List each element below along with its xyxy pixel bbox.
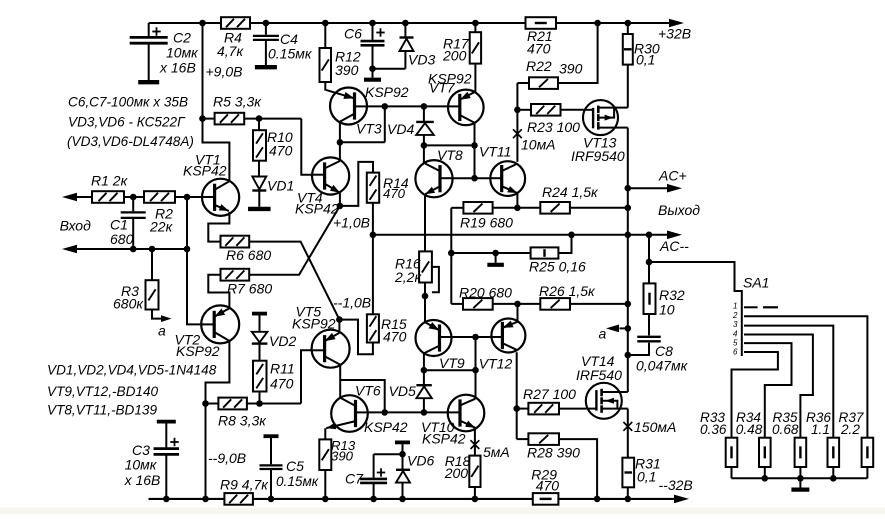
svg-text:200: 200 xyxy=(442,48,467,64)
svg-text:C6,C7-100мк x 35В: C6,C7-100мк x 35В xyxy=(68,95,188,110)
svg-text:2,2к: 2,2к xyxy=(394,269,422,285)
svg-text:R1 2к: R1 2к xyxy=(91,173,129,189)
svg-text:6: 6 xyxy=(733,348,738,357)
svg-text:VD3,VD6 - КС522Г: VD3,VD6 - КС522Г xyxy=(68,115,186,130)
svg-text:680к: 680к xyxy=(113,296,144,312)
svg-text:a: a xyxy=(599,326,607,342)
svg-text:10мА: 10мА xyxy=(521,137,556,153)
svg-text:KSP92: KSP92 xyxy=(176,343,220,359)
svg-text:C2: C2 xyxy=(173,30,191,46)
svg-text:C7: C7 xyxy=(345,471,364,487)
svg-text:0.36: 0.36 xyxy=(700,422,727,437)
svg-text:3: 3 xyxy=(733,320,738,329)
svg-text:--1,0В: --1,0В xyxy=(333,295,371,311)
svg-text:0.68: 0.68 xyxy=(772,422,799,437)
svg-text:--32В: --32В xyxy=(659,477,693,493)
svg-text:+9,0В: +9,0В xyxy=(206,64,243,80)
svg-text:0.15мк: 0.15мк xyxy=(276,474,319,489)
svg-text:R27 100: R27 100 xyxy=(523,386,576,402)
svg-text:KSP92: KSP92 xyxy=(292,316,336,332)
svg-text:680: 680 xyxy=(110,231,134,247)
svg-text:4: 4 xyxy=(733,330,738,339)
svg-text:IRF540: IRF540 xyxy=(576,367,622,383)
svg-text:AC--: AC-- xyxy=(659,238,689,254)
svg-text:0,1: 0,1 xyxy=(636,52,655,68)
svg-text:200: 200 xyxy=(444,465,469,481)
svg-text:R7 680: R7 680 xyxy=(227,281,272,297)
svg-text:470: 470 xyxy=(383,329,407,345)
svg-text:a: a xyxy=(158,323,166,339)
svg-text:R23 100: R23 100 xyxy=(527,119,580,135)
svg-text:R19 680: R19 680 xyxy=(460,215,513,231)
svg-text:0.15мк: 0.15мк xyxy=(268,46,313,62)
svg-text:Выход: Выход xyxy=(658,202,700,218)
svg-text:5мА: 5мА xyxy=(483,444,510,460)
svg-text:470: 470 xyxy=(270,376,294,392)
svg-text:VT9,VT12,-BD140: VT9,VT12,-BD140 xyxy=(47,384,159,399)
svg-text:1: 1 xyxy=(733,302,737,311)
svg-text:KSP42: KSP42 xyxy=(364,419,408,435)
svg-text:+1,0В: +1,0В xyxy=(333,215,370,231)
svg-text:VT3: VT3 xyxy=(356,121,382,137)
svg-text:VT9: VT9 xyxy=(439,355,465,371)
svg-text:470: 470 xyxy=(269,143,293,159)
svg-text:R26 1,5к: R26 1,5к xyxy=(539,283,596,299)
svg-text:VT8: VT8 xyxy=(437,147,463,163)
svg-text:KSP92: KSP92 xyxy=(365,84,409,100)
svg-text:5: 5 xyxy=(733,339,738,348)
svg-text:390: 390 xyxy=(335,62,359,78)
svg-text:10: 10 xyxy=(659,302,675,318)
svg-text:R8 3,3к: R8 3,3к xyxy=(218,413,267,429)
svg-text:VT7: VT7 xyxy=(429,80,456,96)
svg-text:R24 1,5к: R24 1,5к xyxy=(542,184,599,200)
svg-text:150мА: 150мА xyxy=(634,419,676,435)
svg-text:x 16В: x 16В xyxy=(124,472,161,488)
svg-text:0,1: 0,1 xyxy=(637,469,656,485)
svg-text:1.1: 1.1 xyxy=(811,422,830,437)
svg-text:C5: C5 xyxy=(286,458,304,474)
svg-text:AC+: AC+ xyxy=(658,168,687,184)
svg-text:R11: R11 xyxy=(270,361,295,377)
svg-text:x 16В: x 16В xyxy=(159,60,196,76)
svg-text:--9,0В: --9,0В xyxy=(208,450,246,466)
svg-text:VT11: VT11 xyxy=(479,144,511,160)
svg-text:IRF9540: IRF9540 xyxy=(571,148,625,164)
svg-text:4,7к: 4,7к xyxy=(217,43,244,59)
svg-text:R28 390: R28 390 xyxy=(527,445,580,461)
svg-text:(VD3,VD6-DL4748A): (VD3,VD6-DL4748A) xyxy=(67,134,194,149)
svg-text:VD4: VD4 xyxy=(387,121,414,137)
svg-text:0.48: 0.48 xyxy=(736,422,763,437)
svg-text:C6: C6 xyxy=(344,26,362,42)
svg-text:VD2: VD2 xyxy=(269,333,296,349)
svg-text:R9 4,7к: R9 4,7к xyxy=(220,477,269,493)
svg-text:VT6: VT6 xyxy=(355,383,381,399)
svg-text:2: 2 xyxy=(732,311,738,320)
svg-text:VD1: VD1 xyxy=(267,178,294,194)
svg-text:10мк: 10мк xyxy=(125,457,158,473)
svg-text:VD5: VD5 xyxy=(389,383,416,399)
svg-text:VT12: VT12 xyxy=(479,356,513,372)
svg-text:2.2: 2.2 xyxy=(840,422,860,437)
svg-text:Вход: Вход xyxy=(60,218,92,234)
svg-text:470: 470 xyxy=(383,186,406,201)
svg-text:R6 680: R6 680 xyxy=(226,247,271,263)
svg-text:R25 0,16: R25 0,16 xyxy=(529,259,586,275)
svg-text:+32В: +32В xyxy=(658,26,691,42)
svg-text:470: 470 xyxy=(536,477,560,493)
svg-text:VD3: VD3 xyxy=(408,52,435,68)
svg-text:R5 3,3к: R5 3,3к xyxy=(213,94,262,110)
svg-text:22к: 22к xyxy=(149,219,174,235)
svg-text:VT8,VT11,-BD139: VT8,VT11,-BD139 xyxy=(47,402,157,417)
svg-text:KSP42: KSP42 xyxy=(183,163,227,179)
svg-text:R20 680: R20 680 xyxy=(459,285,512,301)
svg-text:390: 390 xyxy=(559,61,583,77)
svg-text:VD1,VD2,VD4,VD5-1N4148: VD1,VD2,VD4,VD5-1N4148 xyxy=(47,363,217,378)
svg-text:0,047мк: 0,047мк xyxy=(636,358,689,374)
svg-text:KSP42: KSP42 xyxy=(422,431,466,447)
svg-text:SA1: SA1 xyxy=(743,275,769,291)
svg-text:VD6: VD6 xyxy=(407,453,434,469)
svg-text:10мк: 10мк xyxy=(166,45,199,61)
svg-text:470: 470 xyxy=(527,41,551,57)
svg-text:390: 390 xyxy=(331,449,354,464)
svg-text:R22: R22 xyxy=(526,58,552,74)
